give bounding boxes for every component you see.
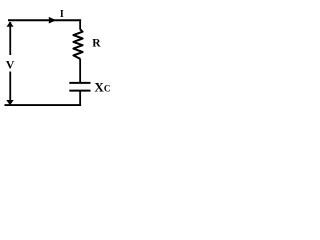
arrowhead up on left wire bbox=[7, 22, 14, 27]
capacitor Xc bottom plate bbox=[69, 90, 90, 92]
wire right vertical (capacitor to bottom) bbox=[79, 91, 81, 105]
svg-text:V: V bbox=[6, 58, 15, 72]
wire right vertical (resistor to capacitor) bbox=[79, 59, 81, 83]
arrowhead down on left wire bbox=[6, 100, 14, 105]
wire left vertical lower segment (V arrow shaft down) bbox=[9, 72, 11, 102]
resistor R bbox=[73, 29, 82, 59]
svg-text:X: X bbox=[94, 79, 104, 94]
current arrowhead on top wire bbox=[49, 17, 56, 24]
wire right vertical (top, into resistor) bbox=[79, 19, 81, 29]
svg-text:R: R bbox=[92, 38, 101, 50]
wire left vertical upper segment (V arrow shaft up) bbox=[9, 22, 11, 55]
wire bottom horizontal bbox=[5, 104, 82, 106]
capacitor Xc top plate bbox=[69, 82, 90, 84]
svg-text:C: C bbox=[104, 84, 111, 94]
wire top horizontal bbox=[8, 19, 81, 21]
svg-text:I: I bbox=[60, 9, 64, 20]
